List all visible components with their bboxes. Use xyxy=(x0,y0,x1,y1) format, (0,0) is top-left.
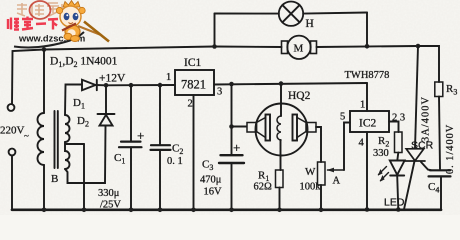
svg-text:B: B xyxy=(51,173,58,185)
wire HQ2 heater bottom to R1 xyxy=(280,140,282,170)
svg-text:100k: 100k xyxy=(300,182,322,193)
node C1 tap xyxy=(129,83,134,88)
potentiometer W xyxy=(318,162,326,185)
IC2 box xyxy=(350,111,389,132)
wire C3 to bus xyxy=(231,163,233,210)
resistor R1 xyxy=(276,170,284,188)
wire C2 top xyxy=(159,85,161,145)
wire IC2 pin5 xyxy=(344,123,350,171)
svg-text:A: A xyxy=(333,176,341,187)
node bus primary xyxy=(42,208,47,213)
terminal 220V lower xyxy=(9,149,16,156)
wiper arrow of W xyxy=(328,169,345,171)
mascot body xyxy=(65,25,80,38)
svg-text:5: 5 xyxy=(340,112,345,123)
motor M xyxy=(287,36,310,59)
capacitor C1 xyxy=(119,142,142,148)
node bus C1 xyxy=(129,208,134,213)
svg-text:2 3: 2 3 xyxy=(392,113,405,124)
wire lamp right xyxy=(303,13,367,14)
wire R2 to LED xyxy=(397,153,398,161)
wire lamp to motor line xyxy=(366,13,368,47)
mascot brush arm xyxy=(62,24,76,31)
red seal ring xyxy=(30,1,51,19)
mascot eyes xyxy=(64,13,70,21)
svg-text:0. 1: 0. 1 xyxy=(167,156,183,167)
svg-text:4: 4 xyxy=(359,138,365,149)
wire 220V live top xyxy=(12,50,44,105)
wire IC2 pin1 to rail xyxy=(366,83,368,111)
svg-text:470μ: 470μ xyxy=(200,175,222,186)
wire SCR cathode to bus xyxy=(404,161,415,209)
HQ2 right pin nub xyxy=(307,123,317,133)
node bus C3 xyxy=(229,208,234,213)
svg-text:LED: LED xyxy=(384,197,405,209)
gas sensor HQ2 envelope xyxy=(256,104,308,156)
LED diode xyxy=(390,161,405,176)
resistor R2 xyxy=(395,132,403,153)
node SCR anode tap xyxy=(416,44,421,49)
node C3 tap xyxy=(229,82,234,87)
svg-text:16V: 16V xyxy=(204,187,223,198)
wire 220V neutral xyxy=(11,156,13,210)
HQ2 right electrode plate xyxy=(293,115,298,141)
node C2 tap xyxy=(158,83,163,88)
transformer B secondary winding lower xyxy=(65,142,70,169)
svg-text:M: M xyxy=(294,43,304,55)
wire C4 to bus xyxy=(440,176,442,209)
wire motor right xyxy=(317,46,419,47)
HQ2 right electrode wedge xyxy=(297,118,306,138)
wire IC2 pin4 to bus xyxy=(366,132,368,210)
svg-text:HQ2: HQ2 xyxy=(288,90,311,102)
transformer B primary lead xyxy=(43,50,45,114)
svg-text:3A/400V: 3A/400V xyxy=(421,96,432,142)
svg-text:~: ~ xyxy=(24,131,29,141)
wire to R3 branch xyxy=(418,46,439,82)
svg-text:+12V: +12V xyxy=(99,73,126,85)
svg-text:0. 1/400V: 0. 1/400V xyxy=(445,124,456,174)
IC1 box xyxy=(175,70,214,95)
HQ2 left electrode wedge xyxy=(257,118,266,138)
red text wei ku yi xia xyxy=(8,17,58,30)
svg-text:2: 2 xyxy=(188,99,193,110)
wire R3 to C4 xyxy=(439,97,440,169)
wire +12V rail xyxy=(106,84,175,86)
svg-text:IC2: IC2 xyxy=(359,118,377,130)
wire D1 cathode xyxy=(96,84,107,86)
node bus W xyxy=(319,208,324,213)
wire secondary top to D1 xyxy=(65,85,82,116)
mascot head xyxy=(60,6,81,27)
node IC2 pin4 bus xyxy=(365,207,370,212)
wire IC1 pin2 to bus xyxy=(193,95,195,210)
svg-text:330: 330 xyxy=(373,148,389,159)
node bus R1 xyxy=(277,208,282,213)
transformer core xyxy=(55,111,58,168)
wire SCR gate xyxy=(421,162,431,170)
diode D1 xyxy=(82,80,97,90)
svg-text:+: + xyxy=(137,128,144,143)
watermark logo dzsc xyxy=(8,1,109,48)
svg-text:H: H xyxy=(306,18,314,30)
wire R1 to bus xyxy=(279,188,281,210)
HQ2 left pin nub xyxy=(247,123,257,133)
transformer B secondary winding upper xyxy=(65,115,70,142)
mascot mouth xyxy=(69,23,74,24)
svg-text:/25V: /25V xyxy=(100,200,121,211)
svg-text:7821: 7821 xyxy=(181,78,206,92)
wire C2 to bus xyxy=(159,150,161,210)
gray text zhao wei ku pian xyxy=(17,3,71,16)
wire C1 top xyxy=(130,85,132,141)
mascot belly xyxy=(67,29,75,37)
capacitor C4 xyxy=(429,170,451,176)
wire lamp left xyxy=(215,13,279,15)
wire C3 top xyxy=(231,84,233,155)
resistor R3 xyxy=(435,82,443,97)
wire live line to loads xyxy=(44,47,214,50)
terminal 220V upper xyxy=(8,104,15,111)
svg-text:1: 1 xyxy=(166,72,171,83)
wire motor left xyxy=(215,46,282,49)
svg-text:62Ω: 62Ω xyxy=(254,182,273,193)
wire ground bus xyxy=(12,208,441,211)
wire primary to bus xyxy=(43,165,45,210)
wire C1 to bus xyxy=(130,147,132,209)
mascot arm and staff xyxy=(78,26,101,35)
wire HQ2 left electrode xyxy=(232,126,247,128)
svg-text:TWH8778: TWH8778 xyxy=(345,70,390,81)
wire LED to bus xyxy=(397,176,398,210)
node bus center-tap xyxy=(82,208,87,213)
capacitor C2 xyxy=(151,145,171,150)
wire W to bus xyxy=(320,185,322,210)
node rectifier output xyxy=(104,83,109,88)
svg-text:1: 1 xyxy=(360,100,365,111)
mascot crown xyxy=(63,1,80,8)
node live junction xyxy=(212,44,217,49)
swoosh xyxy=(14,32,84,47)
node lamp-motor join xyxy=(365,44,370,49)
node bus C2 xyxy=(158,208,163,213)
lamp H xyxy=(279,2,303,26)
wire D2 cathode riser xyxy=(105,85,107,113)
node HQ2 heater tap xyxy=(279,81,284,86)
HQ2 left electrode plate xyxy=(266,115,271,141)
HQ2 heater coil xyxy=(277,116,281,140)
wire lamp branch riser xyxy=(214,14,216,47)
wire SCR anode xyxy=(415,46,418,149)
mascot foot blob over text xyxy=(64,33,72,39)
node HQ2 left electrode tie xyxy=(229,124,234,129)
svg-text:3: 3 xyxy=(217,87,222,98)
wire center tap to bus xyxy=(83,144,85,210)
wire HQ2 heater top xyxy=(280,84,282,116)
wire center tap xyxy=(65,143,84,145)
SCR thyristor xyxy=(405,149,425,161)
svg-text:IC1: IC1 xyxy=(184,57,202,69)
transformer B primary winding xyxy=(38,113,45,165)
capacitor C3 xyxy=(219,155,244,163)
wire IC1 pin3 output rail xyxy=(214,83,367,85)
svg-text:220V: 220V xyxy=(0,125,25,137)
wire HQ2 right electrode to W xyxy=(316,127,321,162)
svg-text:W: W xyxy=(305,166,316,178)
svg-text:+: + xyxy=(233,140,240,155)
node junction live-primary xyxy=(42,47,47,52)
mascot ears xyxy=(56,7,62,13)
LED emission arrows xyxy=(379,167,389,181)
node bus IC1 pin2 xyxy=(191,208,196,213)
wire IC2 pins 2-3 to R2 xyxy=(389,122,399,133)
node LED bus xyxy=(396,207,401,212)
wire secondary bottom to D2 anode xyxy=(65,126,106,184)
motor M brushes xyxy=(282,41,288,54)
svg-text:330μ: 330μ xyxy=(98,188,120,199)
diode D2 xyxy=(98,114,115,126)
